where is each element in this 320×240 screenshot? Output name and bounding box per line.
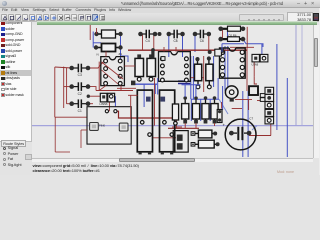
svg-text:U3N6: U3N6 <box>252 63 259 67</box>
svg-text:C1: C1 <box>78 109 82 113</box>
svg-text:C3: C3 <box>78 73 82 77</box>
svg-text:C8: C8 <box>173 39 177 43</box>
svg-text:L0SN6: L0SN6 <box>100 102 108 106</box>
svg-text:PIN0: PIN0 <box>99 123 105 127</box>
svg-text:C7: C7 <box>249 117 253 121</box>
svg-text:N: N <box>97 53 99 57</box>
svg-text:C6: C6 <box>200 39 204 43</box>
svg-text:C2: C2 <box>78 92 82 96</box>
svg-text:C4: C4 <box>146 39 150 43</box>
svg-text:Z1: Z1 <box>119 52 123 56</box>
